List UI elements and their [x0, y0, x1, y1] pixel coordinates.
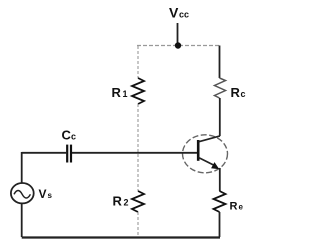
svg-text:2: 2 [124, 198, 129, 208]
svg-text:R: R [113, 194, 123, 209]
svg-text:cc: cc [179, 10, 189, 20]
svg-text:s: s [48, 191, 53, 200]
svg-text:e: e [239, 203, 244, 212]
svg-text:V: V [39, 187, 47, 201]
svg-text:c: c [71, 132, 76, 142]
svg-text:R: R [231, 85, 241, 100]
svg-text:R: R [230, 201, 238, 213]
svg-text:1: 1 [123, 89, 128, 99]
svg-text:c: c [241, 89, 246, 99]
svg-text:C: C [62, 128, 72, 143]
svg-text:R: R [112, 85, 122, 100]
svg-text:V: V [169, 5, 179, 21]
